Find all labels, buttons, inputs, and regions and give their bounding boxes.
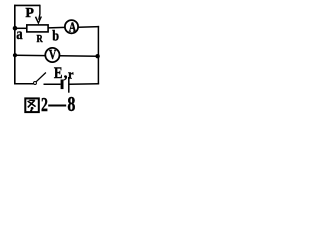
ammeter A bbox=[65, 20, 78, 33]
wire switch to battery bbox=[44, 83, 61, 85]
resistor R (rheostat box) bbox=[27, 25, 48, 32]
caption dash bbox=[48, 105, 66, 107]
wire bottom left bbox=[14, 83, 33, 85]
svg-text:R: R bbox=[37, 33, 44, 45]
wire slider drop bbox=[39, 5, 40, 20]
wire ammeter to right corner bbox=[79, 26, 100, 29]
node dot left (voltmeter tee) bbox=[13, 53, 17, 57]
wire top horizontal bbox=[14, 4, 40, 6]
svg-text:V: V bbox=[49, 48, 56, 63]
svg-text:E: E bbox=[54, 65, 63, 82]
svg-text:8: 8 bbox=[67, 92, 75, 116]
battery positive plate (long thin) bbox=[68, 77, 70, 93]
node dot right (voltmeter tee) bbox=[95, 54, 99, 58]
wire resistor to ammeter bbox=[48, 26, 65, 29]
battery negative plate (short thick) bbox=[61, 80, 64, 90]
wire right vertical bbox=[97, 26, 99, 84]
node a dot bbox=[13, 26, 18, 31]
wire a to resistor bbox=[15, 27, 27, 29]
wire battery to right corner bbox=[70, 83, 100, 86]
voltmeter V bbox=[45, 48, 59, 62]
svg-text:A: A bbox=[69, 21, 77, 36]
switch lever bbox=[36, 73, 46, 82]
svg-text:2: 2 bbox=[41, 94, 48, 116]
caption glyph 图 (hand-drawn) bbox=[25, 98, 39, 112]
wire voltmeter branch left bbox=[15, 54, 45, 56]
wire voltmeter to right vertical bbox=[60, 55, 98, 57]
svg-text:a: a bbox=[16, 26, 22, 43]
wire left vertical bbox=[14, 5, 16, 85]
switch pivot circle bbox=[34, 82, 37, 85]
svg-text:,: , bbox=[64, 65, 68, 82]
svg-text:b: b bbox=[52, 28, 59, 44]
svg-text:r: r bbox=[68, 67, 74, 81]
slider arrowhead P bbox=[35, 16, 42, 24]
svg-text:P: P bbox=[25, 6, 34, 21]
